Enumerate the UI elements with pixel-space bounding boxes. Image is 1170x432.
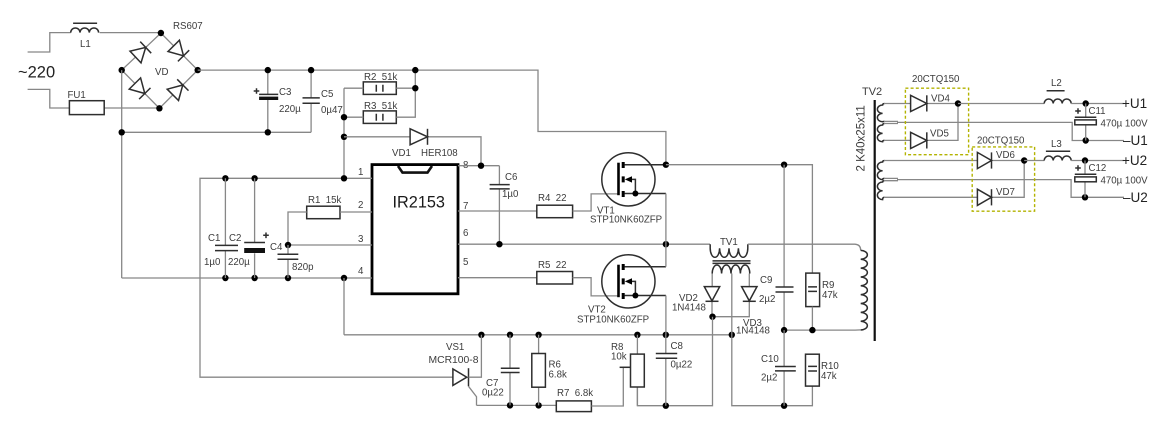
wire drain rail to C9 R9 <box>666 165 813 273</box>
wire L3 to plus U2 <box>1071 160 1124 162</box>
wire pin5 line <box>458 277 537 279</box>
diode VD3 1N4148 <box>713 274 770 337</box>
svg-text:–U2: –U2 <box>1123 190 1148 205</box>
svg-text:VD4: VD4 <box>931 94 950 105</box>
svg-text:L2: L2 <box>1051 78 1062 89</box>
svg-text:0µ22: 0µ22 <box>482 388 504 399</box>
wire U2 center tap to minus U2 <box>884 178 1124 197</box>
capacitor C2 <box>228 178 269 278</box>
svg-text:C6: C6 <box>505 172 517 183</box>
wire TV1 center tap down <box>732 274 813 406</box>
dashed box 20CTQ150 VD6 VD7 <box>972 136 1034 212</box>
node minus rail junction <box>119 129 125 135</box>
svg-text:1µ0: 1µ0 <box>502 189 519 200</box>
svg-text:1µ0: 1µ0 <box>204 257 221 268</box>
resistor R5 22 <box>537 260 573 284</box>
dashed box 20CTQ150 VD4 VD5 <box>905 74 968 155</box>
wire gate sense rail <box>477 404 557 406</box>
svg-text:47k: 47k <box>822 290 838 301</box>
resistor R4 22 <box>537 193 573 218</box>
diode VD1 HER108 <box>344 129 481 166</box>
svg-text:R5 22: R5 22 <box>538 260 567 271</box>
svg-text:20CTQ150: 20CTQ150 <box>912 74 960 85</box>
wire AC lower lead <box>28 89 70 108</box>
svg-text:2µ2: 2µ2 <box>761 373 777 384</box>
svg-text:TV2: TV2 <box>862 86 882 98</box>
transformer TV2 core <box>874 100 876 341</box>
fuse FU1 <box>68 90 160 115</box>
wire VD4 junction to L2 <box>958 103 1044 105</box>
resistor R10 47k <box>806 354 840 386</box>
svg-text:VD6: VD6 <box>996 150 1015 161</box>
svg-text:5: 5 <box>463 257 468 268</box>
svg-text:RS607: RS607 <box>173 21 203 32</box>
diode VD6 <box>884 150 1024 169</box>
wire VD6 junction to L3 <box>1024 160 1044 162</box>
wire U1 center tap to minus U1 <box>884 121 1124 140</box>
resistor R3 51k <box>344 67 418 124</box>
svg-text:3: 3 <box>358 234 363 245</box>
svg-text:C8: C8 <box>671 341 683 352</box>
transformer TV2 secondary winding U1a <box>877 104 884 122</box>
svg-text:–U1: –U1 <box>1123 133 1148 148</box>
svg-text:TV1: TV1 <box>720 237 738 248</box>
resistor R2 51k <box>344 72 415 94</box>
wire pin4 COM line <box>122 277 372 279</box>
svg-text:STP10NK60ZFP: STP10NK60ZFP <box>577 315 649 326</box>
inductor L2 <box>1044 78 1071 104</box>
svg-text:2µ2: 2µ2 <box>759 294 775 305</box>
svg-text:C9: C9 <box>760 275 772 286</box>
capacitor C9 2u2 <box>759 165 794 330</box>
capacitor C11 470u 100V <box>1075 104 1148 141</box>
svg-text:220µ: 220µ <box>279 104 301 115</box>
capacitor C4 820p <box>270 242 314 278</box>
svg-text:6.8k: 6.8k <box>549 370 567 381</box>
diode VD7 <box>884 161 1024 206</box>
wire node X rail <box>784 329 861 331</box>
svg-text:470µ 100V: 470µ 100V <box>1101 176 1149 187</box>
wire VD cathodes down to sense rail <box>637 317 712 406</box>
transformer TV2 secondary winding U2b <box>877 181 884 200</box>
wire R4 to VT1 gate <box>573 194 619 211</box>
svg-text:HER108: HER108 <box>421 148 458 159</box>
svg-text:IR2153: IR2153 <box>393 194 446 212</box>
resistor R9 47k <box>806 273 838 330</box>
svg-text:VD7: VD7 <box>996 187 1015 198</box>
transistor VT1 STP10NK60ZFP <box>590 153 666 226</box>
capacitor C1 <box>204 178 238 278</box>
wire VT2 source to COM rail <box>665 296 667 335</box>
wire VT2 drain to VS node <box>665 244 667 267</box>
wire DC minus rail <box>122 131 311 133</box>
svg-text:C10: C10 <box>761 354 779 365</box>
wire VT1 source to VS node <box>665 194 667 245</box>
svg-text:10k: 10k <box>611 352 627 363</box>
wire L1 to bridge top <box>100 32 161 34</box>
svg-text:220µ: 220µ <box>228 257 250 268</box>
svg-text:C2: C2 <box>229 233 241 244</box>
svg-text:R2 51k: R2 51k <box>364 72 398 83</box>
capacitor C7 0u22 <box>482 335 520 406</box>
svg-text:0µ22: 0µ22 <box>671 360 693 371</box>
capacitor C5 <box>303 67 343 132</box>
wire AC upper lead <box>28 33 71 52</box>
transistor VT2 STP10NK60ZFP <box>577 255 666 326</box>
capacitor C12 470u 100V <box>1075 161 1148 198</box>
svg-text:R4 22: R4 22 <box>538 193 567 204</box>
svg-text:L3: L3 <box>1051 139 1062 150</box>
svg-text:MCR100-8: MCR100-8 <box>429 355 479 366</box>
svg-text:1: 1 <box>358 167 363 178</box>
svg-text:C12: C12 <box>1089 163 1107 174</box>
svg-text:FU1: FU1 <box>68 90 86 101</box>
svg-text:STP10NK60ZFP: STP10NK60ZFP <box>590 215 662 226</box>
svg-text:C3: C3 <box>279 87 291 98</box>
node VD4 VD5 cathode junction <box>955 100 961 106</box>
svg-text:VD5: VD5 <box>930 129 949 140</box>
node VD6 VD7 cathode junction <box>1021 157 1027 163</box>
wire pin7 line <box>458 210 537 212</box>
svg-text:1N4148: 1N4148 <box>736 326 770 337</box>
svg-text:1N4148: 1N4148 <box>672 303 706 314</box>
svg-text:C11: C11 <box>1089 106 1106 117</box>
wire TV1 primary right to TV2 primary <box>748 244 861 250</box>
transformer TV2 secondary winding U2a <box>877 161 884 180</box>
svg-text:47k: 47k <box>821 371 837 382</box>
capacitor C8 0u22 <box>656 335 692 406</box>
capacitor C10 2u2 <box>761 330 796 406</box>
wire pin4 to COM rail vertical <box>343 278 345 335</box>
svg-text:~220: ~220 <box>18 64 55 82</box>
diode VD5 <box>884 104 958 149</box>
svg-text:C5: C5 <box>321 89 333 100</box>
wire R2R3 left vertical to VCC <box>343 88 345 178</box>
svg-text:6: 6 <box>463 228 468 239</box>
bridge rectifier VD RS607 <box>119 21 203 112</box>
svg-text:R3 51k: R3 51k <box>364 101 398 112</box>
svg-text:2 K40x25x11: 2 K40x25x11 <box>856 105 868 171</box>
svg-text:L1: L1 <box>80 39 91 50</box>
capacitor C6 1u0 <box>490 166 519 245</box>
svg-text:470µ 100V: 470µ 100V <box>1101 119 1149 130</box>
diode VD2 1N4148 <box>672 274 720 317</box>
thyristor VS1 MCR100-8 <box>429 335 482 406</box>
wire R5 to VT2 gate <box>573 278 619 296</box>
inductor L1 <box>71 23 99 50</box>
transformer TV2 primary winding <box>861 250 868 330</box>
capacitor C3 <box>254 67 301 136</box>
resistor R8 10k <box>611 335 644 406</box>
svg-text:R7 6.8k: R7 6.8k <box>557 388 593 399</box>
resistor R7 6.8k <box>556 367 630 411</box>
wire DC plus rail to VT1 drain <box>198 70 666 165</box>
wire pin1 VCC line and left loop to VS1 <box>200 178 453 377</box>
svg-text:VD: VD <box>155 67 168 78</box>
wire L2 to plus U1 <box>1071 103 1124 105</box>
transformer TV1 <box>710 237 750 274</box>
wire pin6 VS line <box>458 243 710 245</box>
wire pin8 line <box>458 165 499 167</box>
svg-text:0µ47: 0µ47 <box>321 105 343 116</box>
svg-text:4: 4 <box>358 266 364 277</box>
IC U1 IR2153 <box>358 160 468 294</box>
diode VD4 <box>884 94 958 112</box>
resistor R1 15k <box>288 195 372 245</box>
svg-text:C1: C1 <box>208 233 220 244</box>
svg-text:20CTQ150: 20CTQ150 <box>977 136 1025 147</box>
resistor R6 6.8k <box>532 335 567 406</box>
svg-text:820p: 820p <box>292 262 314 273</box>
transformer TV2 secondary winding U1b <box>877 124 884 142</box>
svg-text:+U1: +U1 <box>1122 96 1147 111</box>
svg-text:+U2: +U2 <box>1122 153 1147 168</box>
wire COM rail <box>344 334 732 336</box>
wire VT1 drain junction <box>663 162 669 168</box>
svg-text:C4: C4 <box>270 242 283 253</box>
node VD2 VD3 cathodes junction <box>709 314 715 320</box>
svg-text:VD1: VD1 <box>392 148 411 159</box>
svg-text:VS1: VS1 <box>446 342 464 353</box>
wire left rail bridge minus down to pin4 line <box>121 70 123 278</box>
inductor L3 <box>1044 139 1071 161</box>
wire pin3 line <box>288 244 372 246</box>
svg-text:R1 15k: R1 15k <box>308 195 342 206</box>
svg-text:2: 2 <box>358 200 363 211</box>
